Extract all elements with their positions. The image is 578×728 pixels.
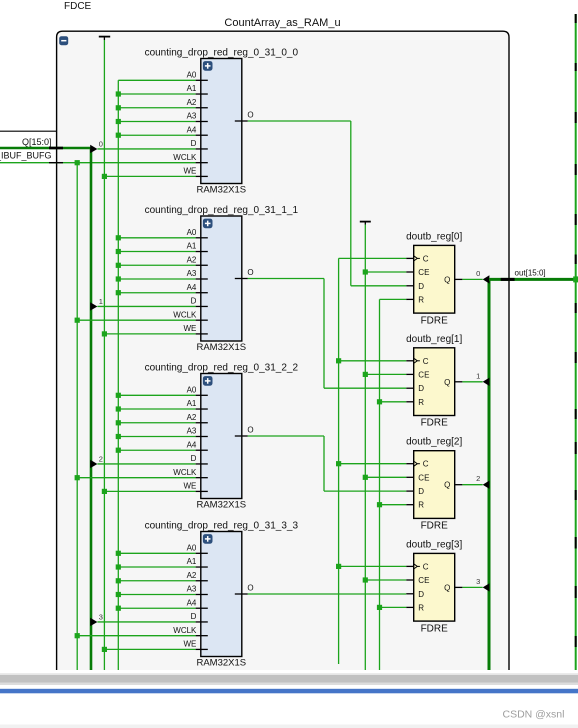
pin A2 stub of counting_drop_red_reg_0_31_2_2 (196, 422, 208, 424)
pin A3 stub of counting_drop_red_reg_0_31_1_1 (196, 278, 208, 280)
svg-text:doutb_reg[1]: doutb_reg[1] (406, 334, 462, 345)
pin Q stub of doutb_reg[0] (455, 278, 463, 280)
svg-text:3: 3 (99, 612, 103, 621)
svg-text:doutb_reg[3]: doutb_reg[3] (406, 539, 462, 550)
svg-text:C: C (423, 460, 429, 469)
svg-text:FDRE: FDRE (421, 315, 449, 326)
svg-text:C: C (423, 562, 429, 571)
svg-text:RAM32X1S: RAM32X1S (196, 184, 246, 195)
wire RAM2 O to FDRE2 D (into D pin) (324, 490, 406, 492)
wire RAM0 O to FDRE0 D (horizontal from O) (248, 120, 351, 122)
junction A-net RAM1 A0 (116, 235, 121, 240)
svg-text:A1: A1 (187, 84, 197, 93)
wire WE net to RAM2 WE (104, 490, 195, 492)
wire A-net to RAM3 A0 (118, 552, 195, 554)
bus ripper arrow out[1] (483, 378, 490, 386)
junction WCLK net RAM0 (75, 160, 80, 165)
svg-text:2: 2 (99, 454, 103, 463)
wire WE net to RAM3 WE (104, 648, 195, 650)
pin CE stub of doutb_reg[1] (406, 373, 414, 375)
pin A4 stub of counting_drop_red_reg_0_31_1_1 (196, 292, 208, 294)
pin A2 stub of counting_drop_red_reg_0_31_3_3 (196, 580, 208, 582)
pin CE stub of doutb_reg[0] (406, 271, 414, 273)
wire A-net to RAM3 A1 (118, 566, 195, 568)
wire A-net to RAM2 A4 (118, 449, 195, 451)
net C(clock) vertical wire to FDRE clocks (338, 258, 340, 664)
constant tie-off T2 (feeds CE net) (360, 222, 371, 225)
pin A4 stub of counting_drop_red_reg_0_31_0_0 (196, 134, 208, 136)
bus tap arrow Q[3] to RAM3 D (90, 618, 97, 626)
svg-text:O: O (247, 111, 253, 120)
svg-text:CE: CE (418, 370, 429, 379)
pin A3 stub of counting_drop_red_reg_0_31_0_0 (196, 120, 208, 122)
junction C net FDRE3 (336, 564, 341, 569)
wire C net to FDRE3 C (339, 565, 407, 567)
svg-text:RAM32X1S: RAM32X1S (196, 499, 246, 510)
wire A-net to RAM0 A2 (118, 107, 195, 109)
junction A-net RAM1 A3 (116, 276, 121, 281)
junction A-net RAM3 A3 (116, 592, 121, 597)
junction WCLK net RAM2 (75, 475, 80, 480)
svg-text:A1: A1 (187, 399, 197, 408)
constant tie-off T1 (feeds WE net) (99, 37, 110, 40)
wire RAM0 O to FDRE0 D (into D pin) (351, 285, 406, 287)
svg-text:WCLK: WCLK (173, 626, 197, 635)
pin A0 stub of counting_drop_red_reg_0_31_0_0 (196, 79, 208, 81)
wire A-net to RAM0 A3 (118, 120, 195, 122)
pin A2 stub of counting_drop_red_reg_0_31_1_1 (196, 264, 208, 266)
svg-text:counting_drop_red_reg_0_31_1_1: counting_drop_red_reg_0_31_1_1 (145, 205, 299, 216)
black pin stub on right edge net y=164 (575, 164, 577, 175)
black pin stub on right edge net y=303 (575, 303, 577, 313)
svg-text:CE: CE (418, 268, 429, 277)
svg-text:R: R (418, 295, 424, 304)
pin WE stub of counting_drop_red_reg_0_31_0_0 (196, 175, 208, 177)
pin A1 stub of counting_drop_red_reg_0_31_0_0 (196, 93, 208, 95)
pin CE stub of doutb_reg[2] (406, 476, 414, 478)
junction A-net RAM2 A4 (116, 448, 121, 453)
junction R net FDRE3 (377, 605, 382, 610)
junction C net FDRE2 (336, 461, 341, 466)
junction CE net FDRE0 (363, 269, 368, 274)
wire FDRE1 Q to out bus (462, 381, 482, 383)
svg-text:C: C (423, 254, 429, 263)
pin D stub of counting_drop_red_reg_0_31_3_3 (196, 621, 208, 623)
svg-text:RAM32X1S: RAM32X1S (196, 342, 246, 353)
junction A-net RAM1 A1 (116, 249, 121, 254)
black pin stub on right edge net y=254.5 (575, 255, 577, 265)
pin A1 stub of counting_drop_red_reg_0_31_2_2 (196, 408, 208, 410)
pin R stub of doutb_reg[3] (406, 606, 414, 608)
black pin stub on right edge net y=214 (575, 214, 577, 225)
svg-text:A0: A0 (187, 71, 197, 80)
svg-text:D: D (418, 384, 424, 393)
black pin stub on right edge net y=442 (575, 442, 577, 454)
bottom scrollbar track band (0, 673, 578, 675)
svg-text:A2: A2 (187, 98, 197, 107)
module container CountArray_as_RAM_u (57, 32, 508, 670)
svg-text:WE: WE (184, 640, 197, 649)
svg-text:O: O (247, 268, 253, 277)
svg-text:D: D (191, 297, 197, 306)
wire A-net to RAM1 A3 (118, 278, 195, 280)
junction out bus at right edge (573, 276, 578, 282)
black pin stub on right edge net y=112 (575, 112, 577, 123)
pin R stub of doutb_reg[0] (406, 298, 414, 300)
wire C net to FDRE0 C (339, 257, 407, 259)
svg-text:A3: A3 (187, 269, 197, 278)
bus tap arrow Q[2] to RAM2 D (90, 460, 97, 468)
junction A-net RAM1 A4 (116, 290, 121, 295)
svg-text:A0: A0 (187, 544, 197, 553)
svg-text:FDCE: FDCE (64, 1, 92, 12)
svg-text:A1: A1 (187, 557, 197, 566)
bus ripper arrow out[2] (483, 481, 490, 489)
right edge vertical net (cut off) (575, 14, 577, 670)
svg-text:counting_drop_red_reg_0_31_2_2: counting_drop_red_reg_0_31_2_2 (145, 363, 299, 374)
svg-text:RAM32X1S: RAM32X1S (196, 657, 246, 668)
svg-text:CE: CE (418, 473, 429, 482)
RAM32X1S instance counting_drop_red_reg_0_31_0_0 body (201, 59, 242, 184)
pin O stub of counting_drop_red_reg_0_31_3_3 (235, 593, 248, 595)
wire A-net to RAM1 A4 (118, 292, 195, 294)
pin A4 stub of counting_drop_red_reg_0_31_3_3 (196, 607, 208, 609)
wire C net to FDRE1 C (339, 360, 407, 362)
pin C stub of doutb_reg[2] (406, 463, 414, 465)
junction A-net RAM3 A0 (116, 551, 121, 556)
svg-text:WE: WE (184, 324, 197, 333)
expand icon (plus) of counting_drop_red_reg_0_31_1_1 (203, 219, 213, 229)
svg-text:WCLK: WCLK (173, 468, 197, 477)
wire A-net to RAM2 A3 (118, 435, 195, 437)
svg-text:CE: CE (418, 576, 429, 585)
svg-text:FDRE: FDRE (421, 623, 449, 634)
junction A-net RAM1 A2 (116, 263, 121, 268)
wire R net to FDRE3 R (380, 606, 407, 608)
pin A0 stub of counting_drop_red_reg_0_31_1_1 (196, 237, 208, 239)
pin R stub of doutb_reg[2] (406, 504, 414, 506)
bus Q[15:0] vertical trunk (90, 148, 93, 670)
clock triangle of doutb_reg[0] (414, 256, 420, 261)
pin WCLK stub of counting_drop_red_reg_0_31_2_2 (196, 477, 208, 479)
RAM32X1S instance counting_drop_red_reg_0_31_1_1 body (201, 216, 242, 341)
bus out[15:0] horizontal to right edge (489, 278, 578, 281)
wire CE net to FDRE3 CE (365, 579, 406, 581)
pin WCLK stub of counting_drop_red_reg_0_31_1_1 (196, 319, 208, 321)
svg-text:O: O (247, 584, 253, 593)
svg-text:D: D (191, 612, 197, 621)
wire Q[3] tap to RAM3 D pin (97, 621, 195, 623)
FDRE instance doutb_reg[2] body (414, 451, 455, 519)
pin O stub of counting_drop_red_reg_0_31_1_1 (235, 278, 248, 280)
pin A3 stub of counting_drop_red_reg_0_31_2_2 (196, 435, 208, 437)
wire A-net to RAM2 A0 (118, 394, 195, 396)
junction R net FDRE1 (377, 399, 382, 404)
junction C net FDRE1 (336, 358, 341, 363)
bus ripper arrow out[3] (483, 583, 490, 591)
clock triangle of doutb_reg[3] (414, 564, 420, 569)
svg-text:counting_drop_red_reg_0_31_0_0: counting_drop_red_reg_0_31_0_0 (145, 48, 299, 59)
footer light band (0, 725, 578, 728)
svg-text:counting_drop_red_reg_0_31_3_3: counting_drop_red_reg_0_31_3_3 (145, 521, 299, 532)
expand icon (plus) of counting_drop_red_reg_0_31_0_0 (203, 61, 213, 71)
wire FDRE0 Q to out bus (462, 278, 482, 280)
clock triangle of doutb_reg[2] (414, 461, 420, 466)
svg-text:D: D (418, 590, 424, 599)
pin A4 stub of counting_drop_red_reg_0_31_2_2 (196, 449, 208, 451)
svg-text:0: 0 (476, 269, 480, 278)
bus wire Q[15:0] into container (0, 147, 91, 150)
expand icon (plus) of counting_drop_red_reg_0_31_2_2 (203, 376, 213, 386)
wire CE net to FDRE2 CE (365, 476, 406, 478)
svg-text:A4: A4 (187, 598, 197, 607)
junction WE net RAM0 (102, 174, 107, 179)
bus ripper arrow out[0] (483, 275, 490, 283)
junction A-net RAM2 A3 (116, 434, 121, 439)
black pin stub on right edge net y=409 (575, 409, 577, 419)
bus tap arrow Q[1] to RAM1 D (90, 302, 97, 310)
junction A-net RAM0 A2 (116, 105, 121, 110)
wire RAM1 O to FDRE1 D (into D pin) (324, 387, 406, 389)
net R(reset) vertical wire (379, 299, 381, 670)
FDRE instance doutb_reg[0] body (414, 245, 455, 313)
svg-text:2: 2 (476, 474, 480, 483)
wire A-net to RAM0 A1 (118, 93, 195, 95)
wire _IBUF_BUFG clock into container to RAM1 WCLK (0, 162, 196, 164)
junction A-net RAM3 A4 (116, 606, 121, 611)
clock triangle of doutb_reg[1] (414, 358, 420, 363)
svg-text:WCLK: WCLK (173, 153, 197, 162)
bus tap arrow Q[0] to RAM0 D (90, 145, 97, 153)
junction CE net FDRE2 (363, 475, 368, 480)
svg-text:Q[15:0]: Q[15:0] (22, 137, 52, 147)
junction A-net RAM0 A3 (116, 119, 121, 124)
junction CE net FDRE3 (363, 577, 368, 582)
svg-text:R: R (418, 398, 424, 407)
junction WCLK net RAM3 (75, 633, 80, 638)
junction WCLK net RAM1 (75, 318, 80, 323)
black pin stub on right edge net y=63 (575, 63, 577, 71)
RAM32X1S instance counting_drop_red_reg_0_31_2_2 body (201, 374, 242, 499)
wire A-net to RAM2 A1 (118, 408, 195, 410)
svg-text:A2: A2 (187, 571, 197, 580)
svg-text:WCLK: WCLK (173, 310, 197, 319)
black pin stub on right edge net y=636 (575, 636, 577, 647)
svg-text:3: 3 (476, 577, 480, 586)
junction WE net RAM3 (102, 647, 107, 652)
svg-text:A2: A2 (187, 255, 197, 264)
svg-text:A4: A4 (187, 125, 197, 134)
pin D stub of doutb_reg[0] (406, 285, 414, 287)
svg-text:0: 0 (99, 139, 103, 148)
wire Q[1] tap to RAM1 D pin (97, 305, 195, 307)
wire A-net to RAM3 A3 (118, 593, 195, 595)
pin D stub of doutb_reg[3] (406, 593, 414, 595)
RAM32X1S instance counting_drop_red_reg_0_31_3_3 body (201, 532, 242, 657)
wire A-net to RAM1 A1 (118, 251, 195, 253)
svg-text:1: 1 (99, 297, 103, 306)
wire WCLK net to RAM1 WCLK (77, 319, 195, 321)
wire Q[0] tap to RAM0 D pin (97, 148, 195, 150)
pin WE stub of counting_drop_red_reg_0_31_2_2 (196, 490, 208, 492)
svg-text:1: 1 (476, 371, 480, 380)
svg-text:A3: A3 (187, 427, 197, 436)
wire WCLK net to RAM2 WCLK (77, 477, 195, 479)
pin R stub of doutb_reg[1] (406, 401, 414, 403)
junction R net FDRE2 (377, 502, 382, 507)
wire RAM0 O to FDRE0 D (vertical) (350, 121, 352, 286)
svg-text:WE: WE (184, 482, 197, 491)
pin WE stub of counting_drop_red_reg_0_31_1_1 (196, 333, 208, 335)
svg-text:doutb_reg[0]: doutb_reg[0] (406, 231, 462, 242)
pin O stub of counting_drop_red_reg_0_31_2_2 (235, 435, 248, 437)
junction A-net RAM3 A2 (116, 578, 121, 583)
svg-text:A2: A2 (187, 413, 197, 422)
pin D stub of doutb_reg[1] (406, 387, 414, 389)
wire RAM3 O straight to FDRE3 D (248, 593, 406, 595)
svg-text:R: R (418, 501, 424, 510)
svg-text:_IBUF_BUFG: _IBUF_BUFG (0, 151, 52, 161)
wire RAM2 O to FDRE2 D (horizontal from O) (248, 435, 324, 437)
svg-text:A0: A0 (187, 228, 197, 237)
svg-text:A4: A4 (187, 440, 197, 449)
junction A-net RAM0 A4 (116, 133, 121, 138)
pin O stub of counting_drop_red_reg_0_31_0_0 (235, 120, 248, 122)
svg-text:FDRE: FDRE (421, 521, 449, 532)
pin WCLK stub of counting_drop_red_reg_0_31_0_0 (196, 162, 208, 164)
pin WE stub of counting_drop_red_reg_0_31_3_3 (196, 648, 208, 650)
black pin stub on right edge net y=352 (575, 352, 577, 363)
svg-text:out[15:0]: out[15:0] (515, 269, 546, 278)
svg-text:A0: A0 (187, 386, 197, 395)
pin A2 stub of counting_drop_red_reg_0_31_0_0 (196, 107, 208, 109)
wire FDRE2 Q to out bus (462, 484, 482, 486)
svg-text:C: C (423, 357, 429, 366)
pin D stub of counting_drop_red_reg_0_31_0_0 (196, 148, 208, 150)
pin C stub of doutb_reg[0] (406, 257, 414, 259)
pin Q stub of doutb_reg[2] (455, 484, 463, 486)
pin WCLK stub of counting_drop_red_reg_0_31_3_3 (196, 635, 208, 637)
svg-text:D: D (418, 282, 424, 291)
junction WE net RAM1 (102, 331, 107, 336)
svg-text:WE: WE (184, 167, 197, 176)
svg-text:A1: A1 (187, 242, 197, 251)
svg-text:Q: Q (444, 583, 450, 592)
port Q[15:0] top border line (0, 130, 57, 132)
black pin stub on right edge net y=537 (575, 537, 577, 549)
pin D stub of counting_drop_red_reg_0_31_1_1 (196, 305, 208, 307)
pin D stub of doutb_reg[2] (406, 490, 414, 492)
pin A1 stub of counting_drop_red_reg_0_31_3_3 (196, 566, 208, 568)
wire CE net to FDRE0 CE (365, 271, 406, 273)
pin D stub of counting_drop_red_reg_0_31_2_2 (196, 463, 208, 465)
FDRE instance doutb_reg[1] body (414, 348, 455, 416)
wire RAM2 O to FDRE2 D (vertical) (323, 436, 325, 491)
net WCLK vertical wire (76, 163, 78, 670)
junction A-net RAM2 A1 (116, 406, 121, 411)
wire A-net to RAM1 A0 (118, 237, 195, 239)
junction WE net RAM2 (102, 489, 107, 494)
wire A-net to RAM2 A2 (118, 422, 195, 424)
wire RAM1 O to FDRE1 D (horizontal from O) (248, 278, 324, 280)
wire CE net to FDRE1 CE (365, 373, 406, 375)
wire R net to FDRE2 R (380, 504, 407, 506)
svg-text:D: D (418, 487, 424, 496)
wire R net to FDRE0 R (380, 298, 407, 300)
svg-text:O: O (247, 426, 253, 435)
black pin stub on right edge net y=490 (575, 490, 577, 500)
svg-text:R: R (418, 603, 424, 612)
junction A-net RAM0 A1 (116, 91, 121, 96)
pin Q stub of doutb_reg[1] (455, 381, 463, 383)
bus out[15:0] vertical trunk (488, 279, 491, 670)
net CE vertical wire (364, 225, 366, 671)
svg-text:FDRE: FDRE (421, 418, 449, 429)
wire C net to FDRE2 C (339, 463, 407, 465)
junction A-net RAM3 A1 (116, 564, 121, 569)
pin Q stub of doutb_reg[3] (455, 586, 463, 588)
svg-text:A4: A4 (187, 283, 197, 292)
svg-text:A3: A3 (187, 112, 197, 121)
svg-text:Q: Q (444, 481, 450, 490)
wire A-net to RAM0 A4 (118, 134, 195, 136)
svg-text:A3: A3 (187, 585, 197, 594)
wire WE net to RAM0 WE (104, 175, 195, 177)
junction A-net RAM2 A0 (116, 393, 121, 398)
pin C stub of doutb_reg[1] (406, 360, 414, 362)
svg-text:D: D (191, 139, 197, 148)
junction A-net RAM2 A2 (116, 420, 121, 425)
wire WE net to RAM1 WE (104, 333, 195, 335)
wire A-net to RAM1 A2 (118, 264, 195, 266)
net WE vertical wire (103, 40, 105, 670)
wire WCLK net to RAM3 WCLK (77, 635, 195, 637)
wire A-net to RAM3 A2 (118, 580, 195, 582)
svg-text:CSDN @xsnl: CSDN @xsnl (502, 709, 564, 721)
svg-text:doutb_reg[2]: doutb_reg[2] (406, 437, 462, 448)
black pin stub on right edge net y=14 (575, 14, 577, 23)
expand icon (plus) of counting_drop_red_reg_0_31_3_3 (203, 534, 213, 544)
FDRE instance doutb_reg[3] body (414, 553, 455, 621)
collapse icon (minus) (59, 36, 68, 45)
pin A0 stub of counting_drop_red_reg_0_31_3_3 (196, 552, 208, 554)
net A(address) vertical wire (117, 80, 119, 670)
wire FDRE3 Q to out bus (462, 586, 482, 588)
wire A-net to RAM3 A4 (118, 607, 195, 609)
wire A-net to RAM0 A0 (118, 79, 195, 81)
pin C stub of doutb_reg[3] (406, 565, 414, 567)
wire RAM1 O to FDRE1 D (vertical) (323, 279, 325, 389)
wire R net to FDRE1 R (380, 401, 407, 403)
junction CE net FDRE1 (363, 372, 368, 377)
svg-text:D: D (191, 454, 197, 463)
pin CE stub of doutb_reg[3] (406, 579, 414, 581)
svg-text:CountArray_as_RAM_u: CountArray_as_RAM_u (224, 17, 340, 29)
pin A0 stub of counting_drop_red_reg_0_31_2_2 (196, 394, 208, 396)
black pin stub on right edge net y=586 (575, 586, 577, 598)
blue separator bar (0, 689, 578, 694)
pin A1 stub of counting_drop_red_reg_0_31_1_1 (196, 251, 208, 253)
svg-text:Q: Q (444, 275, 450, 284)
pin A3 stub of counting_drop_red_reg_0_31_3_3 (196, 593, 208, 595)
svg-text:Q: Q (444, 378, 450, 387)
wire Q[2] tap to RAM2 D pin (97, 463, 195, 465)
